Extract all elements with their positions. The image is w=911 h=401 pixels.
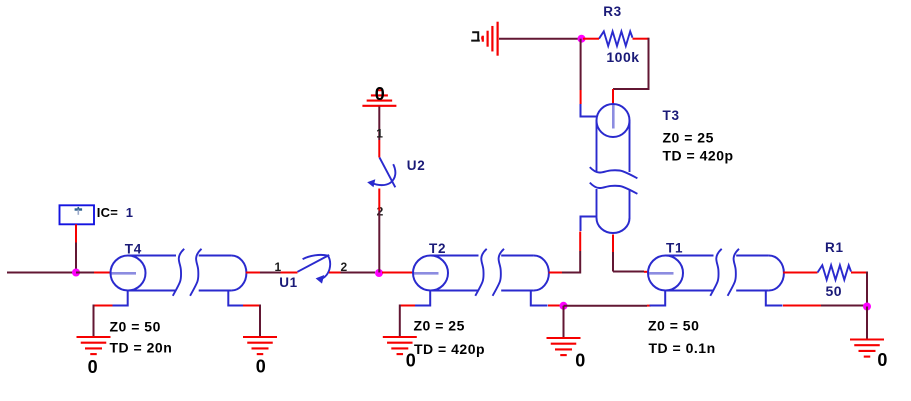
svg-text:TD = 20n: TD = 20n	[110, 339, 173, 355]
wire T1 right pin to node E	[783, 305, 821, 307]
svg-text:T2: T2	[429, 241, 446, 256]
node E junction	[863, 303, 871, 311]
svg-text:TD = 420p: TD = 420p	[663, 148, 734, 164]
ground 0 under node C	[547, 337, 581, 339]
svg-text:1: 1	[126, 205, 133, 220]
svg-text:0: 0	[256, 357, 266, 377]
wire node C to ground	[563, 306, 565, 338]
wire T4 right pin to ground	[243, 305, 261, 307]
wire U1 to node B	[329, 272, 341, 274]
wire node D to T3 upper-left pin	[580, 39, 582, 90]
svg-text:Z0 = 50: Z0 = 50	[648, 317, 699, 333]
node D junction	[578, 35, 586, 43]
node A junction	[72, 269, 80, 277]
wire U2 to node B	[378, 189, 380, 211]
svg-text:100k: 100k	[606, 49, 639, 65]
ground 0 above U2 (inverted)	[362, 105, 396, 107]
svg-text:TD = 0.1n: TD = 0.1n	[649, 340, 716, 356]
power symbol J (rotated ground)	[497, 22, 499, 56]
svg-text:Z0 = 25: Z0 = 25	[663, 129, 714, 145]
svg-text:1: 1	[376, 127, 383, 141]
wire R1 to node E	[851, 272, 867, 274]
wire node E to ground	[866, 307, 868, 340]
wire input net left segment	[7, 272, 76, 274]
wire T2 right pin to node C	[548, 305, 564, 307]
svg-text:1: 1	[275, 260, 282, 274]
wire R3 to T3 top terminal	[633, 38, 649, 40]
switch U2 actuation arc with arrow	[372, 164, 396, 185]
svg-text:T4: T4	[125, 242, 142, 257]
svg-text:R1: R1	[825, 240, 844, 255]
resistor R1	[818, 265, 852, 280]
wire J to node D	[499, 38, 581, 40]
transmission line T1	[649, 272, 674, 275]
node B junction	[375, 269, 383, 277]
switch U1 actuation arc with arrow	[303, 255, 331, 279]
ground 0 under T4 right pin	[243, 336, 277, 338]
svg-text:0: 0	[877, 350, 887, 370]
switch U2 blade	[380, 158, 396, 188]
transmission line T3	[612, 105, 615, 129]
svg-text:TD = 420p: TD = 420p	[414, 341, 485, 357]
svg-text:0: 0	[406, 351, 416, 371]
svg-text:50: 50	[826, 283, 843, 299]
wire T3 bottom terminal to T1	[612, 235, 614, 253]
wire T2 right terminal to T3 lower-left pin	[549, 272, 562, 274]
wire IC to node A	[75, 224, 77, 242]
wire T2 left pin to ground	[401, 305, 416, 307]
label J	[471, 32, 480, 40]
svg-text:0: 0	[375, 84, 385, 104]
svg-text:U1: U1	[279, 275, 298, 290]
wire top ground to U2	[378, 107, 380, 141]
ground 0 under T2 left pin	[383, 336, 417, 338]
switch U1 blade	[298, 255, 330, 272]
wire node D to R3	[583, 38, 599, 40]
svg-text:R3: R3	[603, 4, 622, 19]
transmission line T4	[111, 272, 136, 275]
svg-text:0: 0	[88, 357, 98, 377]
wire T4 to U1	[246, 272, 260, 274]
svg-text:IC=: IC=	[97, 205, 118, 220]
svg-text:T3: T3	[663, 108, 680, 123]
ground 0 under R1	[850, 338, 884, 340]
svg-text:0: 0	[575, 351, 585, 371]
ground 0 under T4 left pin	[77, 336, 111, 338]
svg-text:Z0 = 50: Z0 = 50	[110, 318, 161, 334]
svg-text:Z0 = 25: Z0 = 25	[414, 317, 465, 333]
svg-text:U2: U2	[407, 158, 426, 173]
wire T1 right terminal to R1	[783, 272, 817, 274]
svg-text:T1: T1	[666, 241, 683, 256]
transmission line T2	[414, 272, 439, 275]
wire node A to T4	[76, 272, 94, 274]
resistor R3	[599, 31, 633, 46]
wire node B to T2	[382, 272, 413, 274]
node C junction	[560, 302, 568, 310]
wire T4 left pin to ground	[94, 305, 113, 307]
wire node C to T1 left pin	[564, 305, 648, 307]
IC block initial-condition symbol	[60, 205, 95, 224]
